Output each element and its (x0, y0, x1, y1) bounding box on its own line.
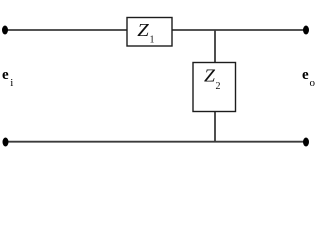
svg-text:o: o (310, 77, 316, 89)
svg-text:e: e (302, 67, 309, 83)
wire bottom horizontal return (5, 141, 306, 143)
svg-text:2: 2 (216, 81, 221, 92)
wire top horizontal e_i to e_o (5, 29, 306, 31)
svg-text:1: 1 (150, 35, 155, 46)
terminal dot top-right (303, 26, 309, 35)
wire vertical shunt branch through Z2 (214, 30, 216, 142)
terminal dot top-left (2, 26, 8, 35)
svg-text:e: e (2, 67, 9, 83)
svg-text:i: i (10, 77, 13, 89)
svg-text:Z: Z (204, 66, 216, 86)
impedance Z2 box (193, 63, 236, 112)
impedance Z1 box (127, 18, 172, 47)
terminal dot bottom-left (3, 138, 9, 147)
svg-text:Z: Z (137, 20, 150, 40)
terminal dot bottom-right (303, 138, 309, 147)
